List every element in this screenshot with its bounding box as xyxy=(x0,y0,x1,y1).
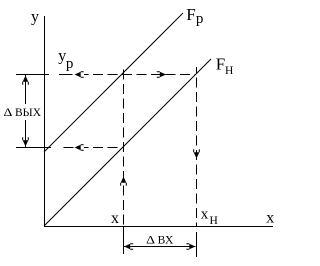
svg-text:ВХ: ВХ xyxy=(158,235,174,247)
svg-text:p: p xyxy=(66,56,74,72)
svg-text:F: F xyxy=(216,55,225,74)
svg-text:x: x xyxy=(201,206,209,222)
svg-text:x: x xyxy=(111,210,119,227)
svg-text:ВЫХ: ВЫХ xyxy=(15,107,42,119)
svg-text:Δ: Δ xyxy=(4,106,13,119)
svg-text:Н: Н xyxy=(225,65,233,77)
svg-text:p: p xyxy=(196,11,204,27)
svg-text:Н: Н xyxy=(210,215,218,227)
svg-text:y: y xyxy=(31,9,39,26)
svg-text:Δ: Δ xyxy=(146,234,155,247)
svg-text:F: F xyxy=(186,5,195,24)
svg-text:x: x xyxy=(266,209,274,226)
